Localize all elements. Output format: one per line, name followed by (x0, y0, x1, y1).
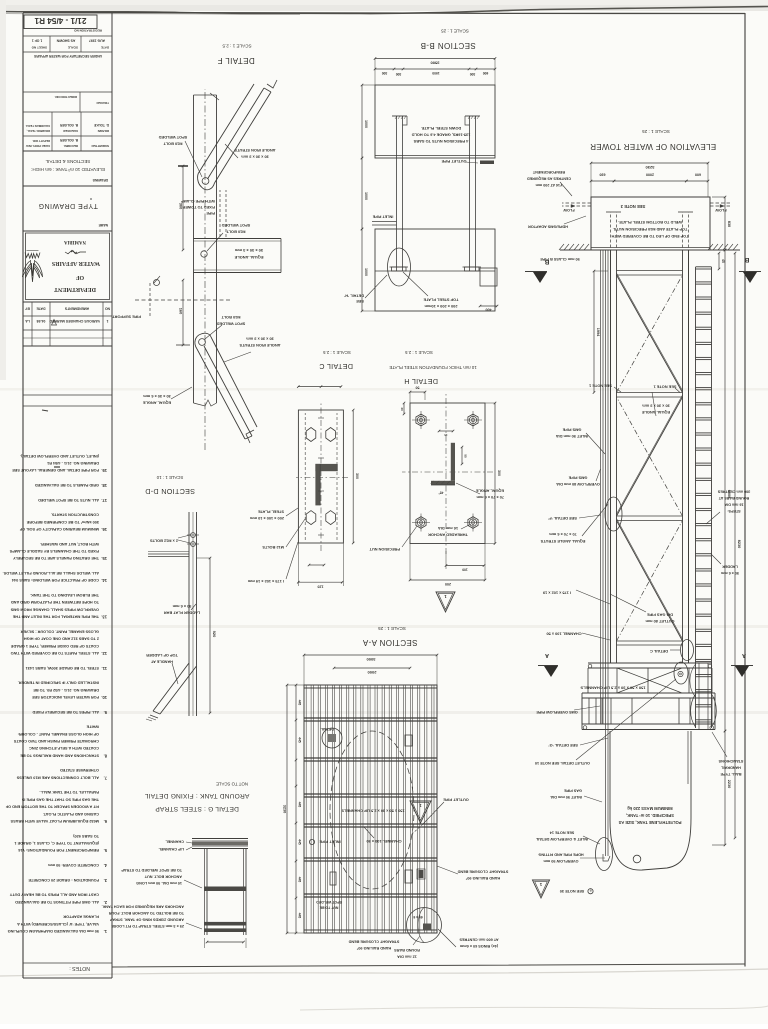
svg-text:CHANNEL 100 x 50: CHANNEL 100 x 50 (546, 632, 581, 637)
svg-text:FIT A WOODEN SPACER TO THE BOT: FIT A WOODEN SPACER TO THE BOTTOM END OF (5, 805, 99, 809)
svg-text:STANCHIONS: STANCHIONS (718, 759, 743, 763)
svg-text:30 x 30 x 3 mm: 30 x 30 x 3 mm (241, 155, 269, 160)
section D-D: ladder handle (153, 663, 197, 714)
svg-text:DRAWN: DRAWN (98, 129, 109, 133)
B-B legs (402, 116, 404, 271)
svg-text:WITH BOLT, NUT AND WASHER.: WITH BOLT, NUT AND WASHER. (40, 542, 99, 546)
svg-text:OUTLET PIPE: OUTLET PIPE (441, 159, 466, 163)
section D-D: bolts (191, 542, 196, 547)
detail H: angle iron (filled) (431, 481, 455, 485)
svg-text:COATS OF RED OXIDE PRIMER, TYP: COATS OF RED OXIDE PRIMER, TYPE 1 GRADE (10, 644, 99, 648)
svg-text:2 TO SABS 312 AND ONE COAT OF: 2 TO SABS 312 AND ONE COAT OF HIGH (24, 637, 99, 641)
svg-text:445: 445 (298, 877, 302, 883)
svg-text:AROUND TANK : FIXING DETAIL: AROUND TANK : FIXING DETAIL (145, 792, 250, 799)
svg-text:SCALE 1 : 25: SCALE 1 : 25 (642, 129, 670, 134)
svg-text:45°: 45° (438, 491, 444, 495)
svg-text:SECTIONS & DETAIL: SECTIONS & DETAIL (45, 159, 90, 164)
svg-text:300 mm CENTRES: 300 mm CENTRES (717, 490, 750, 494)
foundation width dimensions (686, 180, 708, 182)
svg-text:FOR PIPE DETAIL AND GENERAL LA: FOR PIPE DETAIL AND GENERAL LAYOUT SEE (12, 468, 99, 472)
svg-text:CHANNEL 100 x 50: CHANNEL 100 x 50 (366, 839, 401, 844)
page top edge wavy line (0, 7, 768, 14)
detail F: 160 dim (182, 280, 184, 345)
svg-text:CONSTRUCTION STARTS.: CONSTRUCTION STARTS. (51, 513, 99, 517)
svg-text:300: 300 (497, 470, 501, 476)
svg-text:NAMIBIA: NAMIBIA (64, 239, 86, 244)
svg-text:3500: 3500 (430, 61, 440, 66)
svg-text:CAST IRON AND ALL PIPES TO BE: CAST IRON AND ALL PIPES TO BE HEAVY DUTY (9, 893, 99, 897)
svg-text:CASING AND PLASTIC FLOAT.: CASING AND PLASTIC FLOAT. (43, 812, 99, 816)
svg-text:HANDRAIL: HANDRAIL (720, 766, 741, 770)
svg-text:3000: 3000 (366, 657, 376, 662)
svg-text:3230: 3230 (645, 165, 655, 170)
svg-text:PARALLEL TO THE TANK WALL.: PARALLEL TO THE TANK WALL. (39, 790, 99, 794)
department logo (stylized aloe) (22, 251, 42, 283)
svg-text:7.: 7. (104, 775, 107, 780)
svg-text:TO BE BOLTED TO ANCHOR BOLT. F: TO BE BOLTED TO ANCHOR BOLT. FOUR (108, 911, 184, 915)
svg-text:DRAWING: DRAWING (92, 178, 108, 182)
svg-text:600: 600 (483, 71, 489, 75)
svg-text:70 x 70 x 6 mm: 70 x 70 x 6 mm (549, 532, 577, 537)
detail H: hex anchor bolts (416, 414, 426, 426)
svg-text:SEE NOTE 14: SEE NOTE 14 (549, 831, 574, 835)
detail C: dims (298, 581, 342, 583)
B-B inlet pipe (372, 224, 397, 226)
svg-text:NAME: NAME (99, 223, 108, 227)
svg-text:10 mm THICK FOUNDATION STEEL P: 10 mm THICK FOUNDATION STEEL PLATE (389, 365, 476, 370)
svg-text:WHITE: WHITE (86, 725, 99, 729)
svg-text:REINFORCEMENT: REINFORCEMENT (532, 170, 565, 174)
svg-text:(4x) RINGS 60 x 6mm: (4x) RINGS 60 x 6mm (459, 944, 498, 948)
svg-text:300: 300 (396, 72, 402, 76)
svg-text:OF: OF (76, 274, 85, 280)
svg-text:HDPE PIPE AND FITTING: HDPE PIPE AND FITTING (538, 853, 583, 857)
svg-text:3.: 3. (104, 878, 107, 883)
svg-text:FOUNDATION : GRADE 20 CONCRETE: FOUNDATION : GRADE 20 CONCRETE (28, 878, 99, 882)
svg-text:B: B (744, 256, 749, 263)
title block: drawing title box (23, 150, 112, 152)
svg-text:THE GAS PIPE SO THAT THE GAS P: THE GAS PIPE SO THAT THE GAS PIPE IS (21, 797, 99, 801)
svg-text:CENTRES AS REQUIRED: CENTRES AS REQUIRED (527, 177, 571, 181)
svg-text:INLET 50 mm DIA: INLET 50 mm DIA (556, 434, 589, 439)
elevation: polyethylene tank (610, 731, 691, 870)
svg-text:EQUAL ANGLE: EQUAL ANGLE (143, 401, 172, 406)
svg-text:ALL STEEL PARTS TO BE COVERED: ALL STEEL PARTS TO BE COVERED WITH TWO (11, 651, 99, 655)
detail C: small ticks on centreline (318, 534, 324, 536)
svg-text:EQUAL ANGLE: EQUAL ANGLE (234, 255, 263, 260)
detail G: bottom dim (207, 941, 244, 943)
svg-text:INLET PIPE: INLET PIPE (319, 840, 341, 845)
svg-text:4 PRECISION NUTS TO SABS: 4 PRECISION NUTS TO SABS (413, 139, 468, 144)
elevation: tower legs (688, 250, 690, 663)
svg-text:FOR WATER LEVEL INDICATOR SEE: FOR WATER LEVEL INDICATOR SEE (32, 695, 99, 699)
svg-text:CHAIRMAN TECH.: CHAIRMAN TECH. (25, 124, 50, 128)
section D-D: rungs (148, 556, 189, 558)
svg-text:ALL NUTS TO BE SPOT WELDED: ALL NUTS TO BE SPOT WELDED (38, 498, 99, 502)
svg-text:100: 100 (462, 568, 468, 572)
svg-text:HDPE/GMS ADAPTOR: HDPE/GMS ADAPTOR (528, 225, 568, 229)
elevation: pipes along right leg (607, 250, 609, 731)
detail F: lower diagonal strut (197, 349, 245, 439)
detail F: upper diagonal strut (215, 92, 272, 183)
svg-text:COATED WITH A SELF-ETCHING ZIN: COATED WITH A SELF-ETCHING ZINC (29, 746, 99, 750)
svg-text:SCALE 1 : 25: SCALE 1 : 25 (441, 29, 469, 34)
svg-text:LADDER: LADDER (722, 565, 738, 569)
svg-text:B. GOLGER: B. GOLGER (59, 138, 78, 142)
svg-text:ALL WELDS SHALL BE ALL-ROUND F: ALL WELDS SHALL BE ALL-ROUND FILLET WELD… (3, 571, 99, 575)
svg-text:M10 BOLT: M10 BOLT (226, 230, 246, 235)
platform cross braces (617, 668, 682, 693)
svg-text:SECTION B-B: SECTION B-B (420, 41, 476, 50)
svg-text:SCALE 1 : 2.5: SCALE 1 : 2.5 (323, 350, 351, 355)
svg-text:OF HIGH GLOSS ENAMEL PAINT - C: OF HIGH GLOSS ENAMEL PAINT - COLOUR: (18, 732, 99, 736)
svg-text:30 x 30 x 3 mm: 30 x 30 x 3 mm (642, 404, 670, 409)
svg-text:TYPE DRAWING: TYPE DRAWING (38, 202, 98, 209)
svg-text:VARIOUS CHANGES MARKED: VARIOUS CHANGES MARKED (49, 319, 100, 323)
svg-text:60 x 6: 60 x 6 (413, 915, 422, 919)
svg-text:TO BE SPOT WELDED TO STRAP: TO BE SPOT WELDED TO STRAP (121, 868, 182, 872)
detail H: revision triangle (436, 592, 455, 612)
svg-text:5.: 5. (104, 848, 107, 853)
svg-text:50 mm CLASS B PIPE: 50 mm CLASS B PIPE (540, 257, 580, 261)
svg-text:50 mm DIA GALVANIZED DIAPHRAGM: 50 mm DIA GALVANIZED DIAPHRAGM COUPLING (8, 929, 99, 933)
detail F: pipe support dashes (149, 283, 151, 316)
section A-A: platform grid (304, 685, 437, 933)
svg-text:(INLET, OUTLET AND OVERFLOW DE: (INLET, OUTLET AND OVERFLOW DETAIL). (20, 454, 99, 458)
svg-text:160: 160 (179, 308, 184, 315)
svg-text:1000: 1000 (364, 120, 368, 128)
svg-text:1 OF 1: 1 OF 1 (32, 39, 42, 43)
detail F: vertical member (216, 95, 218, 403)
svg-text:SECTION A-A: SECTION A-A (362, 638, 417, 647)
svg-text:400: 400 (486, 308, 492, 312)
svg-text:445: 445 (298, 737, 302, 743)
svg-text:DETAIL ‘H’: DETAIL ‘H’ (344, 294, 364, 299)
svg-text:GMS PIPE: GMS PIPE (562, 428, 581, 433)
svg-text:DETAIL F: DETAIL F (217, 56, 254, 65)
svg-text:16 mm DIA: 16 mm DIA (438, 526, 458, 531)
svg-text:THE GRATING PANELS ARE TO BE S: THE GRATING PANELS ARE TO BE SECURELY (13, 556, 99, 560)
detail G: tank wall (245, 848, 247, 935)
svg-text:150 x 50 x 30 x 2.5 LIP CHANN: 150 x 50 x 30 x 2.5 LIP CHANNELS (580, 686, 645, 691)
svg-text:TO SABS 920): TO SABS 920) (73, 834, 99, 838)
svg-text:LA: LA (25, 319, 30, 323)
svg-text:OVERFLOW PIPES SHALL CHANGE FR: OVERFLOW PIPES SHALL CHANGE FROM GMS (10, 607, 99, 611)
svg-text:THE ELBOW LEADING TO THE TANK.: THE ELBOW LEADING TO THE TANK. (30, 593, 99, 597)
svg-text:4.: 4. (104, 863, 107, 868)
title block: department box (23, 230, 112, 232)
svg-text:STANCHIONS AND HAND RAILINGS T: STANCHIONS AND HAND RAILINGS TO BE (20, 753, 99, 757)
elevation: inlet pipe rising to tank top (607, 731, 609, 856)
svg-text:SEE NOTE 1: SEE NOTE 1 (653, 385, 677, 390)
ladder top hoops (691, 694, 696, 727)
svg-text:TOP OF LADDER: TOP OF LADDER (146, 653, 178, 658)
elevation: tank platform (lip channels) (582, 729, 715, 731)
svg-text:THE PIPE MATERIAL FOR THE INLE: THE PIPE MATERIAL FOR THE INLET AND THE (12, 615, 99, 619)
svg-text:REGISTRATION NO: REGISTRATION NO (74, 29, 102, 33)
svg-text:ANGLE IRON STRUTS: ANGLE IRON STRUTS (239, 343, 280, 348)
svg-text:STEEL TO BE GRADE 300W, SABS 1: STEEL TO BE GRADE 300W, SABS 1431 (25, 666, 99, 670)
svg-text:1994: 1994 (596, 328, 600, 337)
svg-text:1: 1 (107, 319, 109, 323)
svg-text:2000: 2000 (646, 173, 654, 177)
svg-text:INLET & OVERFLOW DETAIL: INLET & OVERFLOW DETAIL (535, 837, 588, 841)
notes header box (111, 13, 113, 978)
section B-B: tank rectangle (375, 85, 495, 158)
svg-text:50 x 6 mm: 50 x 6 mm (172, 604, 191, 609)
svg-text:8.: 8. (104, 753, 107, 758)
svg-text:2 x M12 BOLTS: 2 x M12 BOLTS (150, 539, 178, 544)
svg-text:EQUAL ANGLE STRUTS: EQUAL ANGLE STRUTS (540, 539, 585, 544)
svg-text:(EQUIVALENT TO TYPE C, CLASS 1: (EQUIVALENT TO TYPE C, CLASS 1, GRADE 1 (13, 841, 99, 845)
svg-text:445: 445 (298, 802, 302, 808)
detail H: inner dims (461, 447, 463, 464)
svg-text:M10 BOLT: M10 BOLT (221, 315, 241, 320)
title block: TYPE DRAWING box (23, 185, 112, 187)
svg-text:WATER AFFAIRS: WATER AFFAIRS (51, 260, 100, 266)
svg-text:SPOT WELDED: SPOT WELDED (316, 900, 342, 904)
svg-text:PIPE: PIPE (206, 211, 215, 215)
svg-text:150 x 50 x 30 x 2.5 LIP CHANN: 150 x 50 x 30 x 2.5 LIP CHANNELS (341, 809, 405, 814)
svg-text:135-16RS, GRADE 4.6 TO HOLD: 135-16RS, GRADE 4.6 TO HOLD (411, 133, 470, 138)
svg-text:SCALE 1 : 2.5: SCALE 1 : 2.5 (222, 44, 252, 49)
svg-text:HANDLE AT: HANDLE AT (150, 660, 173, 665)
svg-text:OUTLET PIPE: OUTLET PIPE (443, 798, 469, 803)
svg-text:10 mm DIA. 50 mm LONG: 10 mm DIA. 50 mm LONG (136, 881, 182, 885)
B-B small box + 400 dim (480, 268, 497, 286)
svg-text:SEE NOTE 3: SEE NOTE 3 (620, 204, 645, 209)
svg-text:DETAIL: DETAIL (320, 727, 334, 731)
svg-text:POLYETHYLENE TANK, SIZE AS: POLYETHYLENE TANK, SIZE AS (618, 820, 681, 825)
elevation: ladder (711, 267, 713, 728)
svg-text:OVERFLOW 50 mm: OVERFLOW 50 mm (543, 859, 579, 863)
svg-text:25 x 3 mm STEEL STRAP TO FIT L: 25 x 3 mm STEEL STRAP TO FIT LOOSE (111, 924, 184, 928)
svg-text:STEPS:: STEPS: (727, 509, 740, 513)
svg-text:120: 120 (318, 584, 324, 588)
svg-text:830: 830 (727, 221, 731, 227)
B-B detail circle on left plate (388, 248, 411, 286)
svg-text:12.: 12. (101, 651, 107, 656)
svg-text:CHANNEL: CHANNEL (165, 840, 184, 844)
svg-text:TO HDPE BETWEEN THE PLATFORM G: TO HDPE BETWEEN THE PLATFORM GRID AND (11, 600, 99, 604)
elevation: horizontal struts (617, 644, 683, 646)
svg-text:9.: 9. (104, 710, 107, 715)
svg-text:DRAWING NO. 21/1 - 4/84 R1: DRAWING NO. 21/1 - 4/84 R1 (46, 461, 99, 465)
platform end flanges (710, 726, 714, 730)
svg-text:12 mm DIA: 12 mm DIA (397, 955, 417, 959)
svg-text:I 175 x 102 x 19 mm: I 175 x 102 x 19 mm (247, 579, 284, 584)
detail G: top channel (192, 848, 248, 850)
grid vertical members (433, 685, 435, 933)
svg-text:14.: 14. (101, 578, 107, 583)
stray pencil marks in notes column (54, 466, 60, 468)
svg-text:DEPARTMENT: DEPARTMENT (54, 286, 96, 292)
svg-text:DIA GAS PIPE: DIA GAS PIPE (647, 613, 673, 618)
svg-text:CHROMATE PRIMER FINISH AND TWO: CHROMATE PRIMER FINISH AND TWO COATS (13, 739, 99, 743)
svg-text:FIXED TO TOWER: FIXED TO TOWER (182, 205, 215, 209)
svg-text:ELEVATION OF WATER TOWER: ELEVATION OF WATER TOWER (590, 142, 716, 151)
svg-text:ANGLE IRON STRUTS: ANGLE IRON STRUTS (234, 148, 275, 153)
svg-text:STRAIGHT CLOSURE BEND: STRAIGHT CLOSURE BEND (457, 870, 508, 874)
svg-text:1900: 1900 (432, 71, 440, 75)
title block: under secretary box (23, 51, 112, 53)
svg-text:INLET PIPE: INLET PIPE (372, 215, 393, 219)
warning triangle in grid (410, 801, 431, 823)
svg-text:RECOMM.: RECOMM. (63, 144, 78, 148)
svg-text:DIRECTION NR.: DIRECTION NR. (54, 95, 77, 99)
scanner top edge band (0, 0, 768, 11)
svg-text:200: 200 (445, 582, 451, 586)
svg-text:445: 445 (298, 913, 302, 919)
svg-text:BY: BY (24, 307, 29, 311)
detail H: outer dims (410, 579, 485, 581)
svg-text:SEE DETAIL ‘F’: SEE DETAIL ‘F’ (548, 516, 577, 521)
B-B leg top plates inside tank + brackets (392, 115, 407, 117)
left dim 1994 (readable right) (593, 271, 595, 393)
svg-text:630: 630 (600, 173, 606, 177)
svg-text:OVERFLOW 80 mm DIA: OVERFLOW 80 mm DIA (556, 482, 600, 487)
svg-text:PRECISION NUT: PRECISION NUT (369, 547, 400, 552)
svg-text:M12 BOLTS: M12 BOLTS (262, 545, 284, 550)
svg-text:OTHERWISE STATED: OTHERWISE STATED (60, 768, 99, 772)
svg-text:6.: 6. (104, 819, 107, 824)
detail marker circle top-left (322, 728, 342, 748)
svg-text:SCALE 1 : 2.5: SCALE 1 : 2.5 (405, 350, 433, 355)
svg-text:70 x 70 x 6 mm: 70 x 70 x 6 mm (476, 495, 504, 500)
svg-text:MINIMUM BEARING CAPACITY OF SO: MINIMUM BEARING CAPACITY OF SOIL OF (19, 527, 99, 531)
svg-text:SEE: SEE (356, 299, 364, 304)
svg-text:445: 445 (298, 839, 302, 845)
svg-text:GMS PIPE: GMS PIPE (568, 476, 587, 481)
svg-text:ALL PIPES TO BE SECURELY FIXED: ALL PIPES TO BE SECURELY FIXED (32, 710, 99, 714)
section D-D: vertical member (196, 512, 198, 716)
svg-text:BALL TYPE: BALL TYPE (720, 772, 741, 776)
svg-text:55: 55 (464, 454, 468, 458)
svg-text:UNDER SECRETARY FOR WATER AFFA: UNDER SECRETARY FOR WATER AFFAIRS (33, 54, 102, 58)
svg-text:PIPE SUPPORT: PIPE SUPPORT (112, 315, 141, 320)
svg-text:AT 600 mm CENTRES: AT 600 mm CENTRES (459, 938, 499, 942)
svg-text:SCALE 1 : 10: SCALE 1 : 10 (156, 475, 183, 480)
grid horizontal channels (304, 896, 437, 898)
svg-text:Y16 AT 200 mm: Y16 AT 200 mm (535, 183, 563, 187)
svg-text:FLOW: FLOW (563, 208, 575, 212)
svg-text:ALL GMS PIPE FITTINGS TO BE GA: ALL GMS PIPE FITTINGS TO BE GALVANIZED (15, 900, 99, 904)
svg-text:TRACED: TRACED (96, 101, 109, 105)
svg-text:DETAIL C: DETAIL C (650, 649, 668, 654)
detail C: plate (298, 410, 343, 543)
faint scan streaks (0, 625, 768, 628)
svg-text:13.: 13. (101, 615, 107, 620)
small clamp markers lower band (330, 872, 336, 885)
svg-text:16.: 16. (101, 527, 107, 532)
svg-text:D. TOLKE: D. TOLKE (94, 123, 109, 127)
svg-text:17.: 17. (101, 498, 107, 503)
svg-text:STEEL PLATE: STEEL PLATE (258, 510, 284, 515)
section A-A top dims (304, 654, 437, 656)
svg-text:GLOSS ENAMEL PAINT. COLOUR : S: GLOSS ENAMEL PAINT. COLOUR : SILVER (20, 629, 99, 633)
svg-text:NOTES :: NOTES : (69, 965, 90, 971)
svg-text:2230: 2230 (727, 780, 731, 788)
svg-text:FLANGE ADAPTOR: FLANGE ADAPTOR (63, 915, 99, 919)
svg-text:16 mm DIA: 16 mm DIA (724, 503, 743, 507)
svg-text:ROUND BARS AT: ROUND BARS AT (718, 496, 749, 500)
svg-text:1.: 1. (104, 929, 107, 934)
svg-text:WITH PIPE CLAMP: WITH PIPE CLAMP (181, 199, 215, 203)
hand railing detail circle (407, 908, 442, 943)
svg-text:40: 40 (400, 407, 404, 411)
B-B top width dims (375, 58, 495, 60)
svg-text:30 x 30 x 3 mm: 30 x 30 x 3 mm (234, 248, 263, 253)
svg-text:CHECKED: CHECKED (62, 129, 78, 133)
svg-text:SUBMITTED: SUBMITTED (91, 144, 109, 148)
svg-text:AUG 1997: AUG 1997 (89, 39, 105, 43)
svg-text:8230: 8230 (737, 540, 741, 548)
svg-text:CONCRETE COVER: 50 mm: CONCRETE COVER: 50 mm (48, 863, 99, 867)
svg-text:B. GOLGER: B. GOLGER (59, 123, 78, 127)
svg-text:1000: 1000 (364, 268, 368, 276)
svg-text:DETAIL C: DETAIL C (319, 362, 353, 371)
elevation: foundation block (591, 197, 710, 250)
svg-text:SCALE: SCALE (68, 46, 78, 50)
elevation: X bracing panels (617, 521, 683, 642)
svg-text:EQUAL ANGLE: EQUAL ANGLE (475, 489, 504, 494)
svg-text:15.: 15. (101, 556, 107, 561)
svg-text:HAND RAILING 90°: HAND RAILING 90° (356, 946, 391, 950)
svg-text:200 x 100 x 10 mm: 200 x 100 x 10 mm (249, 516, 284, 521)
svg-text:INLET 50 mm DIA: INLET 50 mm DIA (550, 795, 582, 799)
section A cut markers (544, 666, 558, 677)
svg-text:ANCHOR BOLT. NUT: ANCHOR BOLT. NUT (144, 875, 182, 879)
svg-text:DETAIL G : STEEL STRAP: DETAIL G : STEEL STRAP (155, 805, 239, 812)
svg-text:LADDER FLAT BAR: LADDER FLAT BAR (164, 611, 201, 616)
svg-text:50 x 6 mm: 50 x 6 mm (720, 571, 739, 575)
svg-text:ROUND BARS: ROUND BARS (394, 948, 420, 952)
svg-text:300 kN/m² TO BE CONFIRMED BEFO: 300 kN/m² TO BE CONFIRMED BEFORE (26, 520, 99, 525)
svg-text:445: 445 (298, 700, 302, 706)
section B cut markers (533, 272, 547, 283)
svg-text:M632 EQUILIBRIUM FLOAT VALVE W: M632 EQUILIBRIUM FLOAT VALVE WITH BRASS (10, 819, 99, 823)
ground line + hatching (710, 249, 740, 251)
svg-text:MINIMUM MASS 220 kg: MINIMUM MASS 220 kg (627, 806, 673, 811)
svg-text:DOWN STEEL PLATE.: DOWN STEEL PLATE. (421, 126, 462, 131)
title block: date/scale/sheet row (23, 35, 112, 37)
svg-text:DATE: DATE (36, 307, 46, 311)
amendments table (23, 301, 112, 303)
detail C: angle iron (filled) (315, 464, 320, 506)
svg-text:10.: 10. (101, 695, 107, 700)
svg-text:GAS PIPE: GAS PIPE (564, 789, 582, 793)
svg-text:LIP CHANNEL: LIP CHANNEL (158, 847, 184, 851)
svg-text:GRID PANELS TO BE GALVANIZED: GRID PANELS TO BE GALVANIZED (35, 483, 99, 487)
ornament divider (65, 250, 86, 254)
svg-text:NUT TO BE: NUT TO BE (319, 906, 338, 910)
small rect marker (405, 735, 412, 746)
svg-text:04-98: 04-98 (37, 319, 46, 323)
svg-text:OUTLET 80 mm: OUTLET 80 mm (645, 619, 675, 624)
45 offset dim (718, 253, 720, 269)
svg-text:DATE: DATE (101, 46, 109, 50)
svg-text:DRAWING TECH.,: DRAWING TECH., (26, 129, 50, 133)
svg-text:DEPUTY DIR.: DEPUTY DIR. (32, 139, 50, 143)
svg-text:NO: NO (105, 307, 110, 311)
svg-text:45: 45 (721, 259, 725, 263)
svg-text:A: A (742, 652, 746, 658)
svg-text:920: 920 (212, 631, 217, 638)
flow pipes at ground level (562, 205, 591, 207)
svg-text:AROUND 2/3RDS RING OF TANK. ST: AROUND 2/3RDS RING OF TANK. STRAP (109, 918, 184, 922)
svg-text:200 x 200 x 10mm: 200 x 200 x 10mm (424, 304, 457, 309)
svg-text:SCALE 1 : 25: SCALE 1 : 25 (378, 626, 406, 631)
